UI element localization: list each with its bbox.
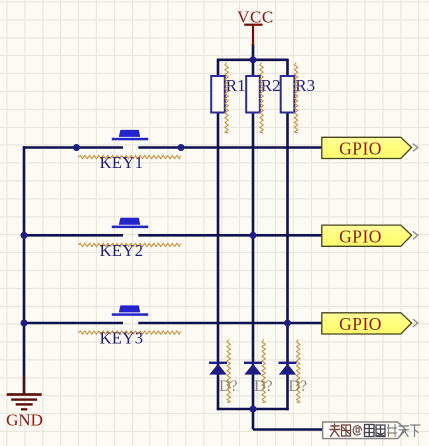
svg-text:R3: R3 (295, 76, 315, 95)
svg-text:GND: GND (6, 410, 43, 429)
svg-text:VCC: VCC (237, 8, 274, 27)
svg-text:GPIO: GPIO (339, 226, 382, 246)
svg-text:GPIO: GPIO (339, 314, 382, 334)
svg-text:GPIO: GPIO (339, 139, 382, 159)
svg-text:R2: R2 (261, 76, 281, 95)
svg-text:KEY2: KEY2 (100, 241, 144, 260)
svg-text:KEY3: KEY3 (100, 329, 144, 348)
svg-text:KEY1: KEY1 (100, 153, 144, 172)
svg-text:R1: R1 (226, 76, 246, 95)
